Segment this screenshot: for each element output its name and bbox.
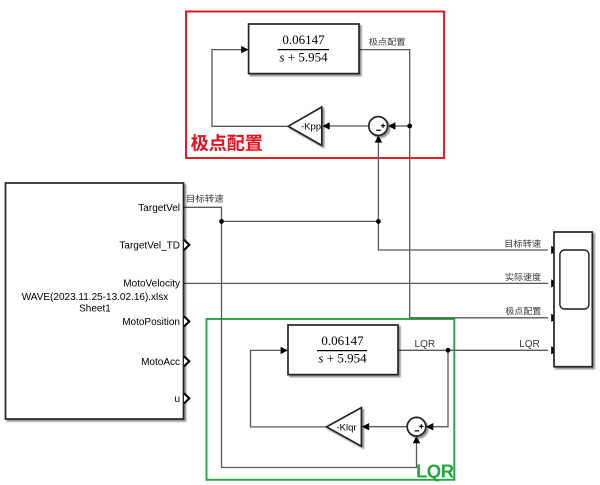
svg-text:TargetVel: TargetVel	[138, 203, 180, 214]
wire: MotoVelocity output to scope input 2	[184, 282, 549, 284]
node: junction B (TargetVel to sum1/scope)	[376, 219, 381, 224]
output port chevron MotoAcc	[184, 356, 189, 366]
signal label 实际速度 (at scope)	[506, 273, 541, 281]
wire: sum2 output to gain2 input	[368, 426, 408, 428]
svg-text:MotoAcc: MotoAcc	[141, 357, 180, 368]
signal label 极点配置 (at TF1 output)	[369, 38, 405, 46]
svg-text:LQR: LQR	[519, 339, 540, 350]
gain block -Klqr	[327, 408, 362, 447]
svg-text:Sheet1: Sheet1	[79, 303, 111, 314]
svg-text:WAVE(2023.11.25-13.02.16).xlsx: WAVE(2023.11.25-13.02.16).xlsx	[22, 292, 169, 303]
gain block -Kpp	[288, 107, 322, 145]
wire: TargetVel output to junction A	[184, 207, 379, 221]
svg-text:LQR: LQR	[416, 461, 454, 482]
svg-text:0.06147: 0.06147	[321, 333, 364, 348]
green annotation box (LQR region)	[207, 319, 455, 480]
node: junction C (pole placement feedback tap)	[407, 124, 412, 129]
svg-text:LQR: LQR	[415, 339, 436, 350]
svg-text:u: u	[174, 394, 180, 405]
sum junction (LQR)	[407, 417, 426, 436]
block: WAVE spreadsheet source	[6, 183, 184, 419]
svg-text:MotoPosition: MotoPosition	[122, 317, 180, 328]
transfer function block TF1 (0.06147/(s+5.954))	[249, 24, 359, 74]
red 极点配置 title	[191, 134, 262, 151]
wire: gain1 output feedback up into TF1 input	[212, 50, 288, 127]
signal label 极点配置 (at scope)	[506, 307, 541, 315]
output port chevron MotoPosition	[184, 316, 189, 326]
svg-text:s + 5.954: s + 5.954	[318, 350, 367, 365]
svg-text:MotoVelocity: MotoVelocity	[123, 279, 180, 290]
output port chevron u	[184, 393, 189, 403]
wire: gain2 output feedback up into TF2 input	[251, 350, 327, 427]
wire: junction A down along bottom into sum2 bottom input	[222, 221, 417, 467]
sum junction (pole placement)	[369, 117, 388, 136]
svg-text:-Klqr: -Klqr	[336, 422, 356, 433]
svg-text:TargetVel_TD: TargetVel_TD	[119, 240, 180, 251]
transfer function block TF2 (0.06147/(s+5.954))	[288, 325, 398, 375]
svg-text:-Kpp: -Kpp	[301, 122, 321, 133]
wire: junction C left into sum1 + input	[394, 125, 410, 127]
wire: junction B down then right to scope input 1	[378, 221, 548, 250]
node: junction D (LQR feedback tap)	[446, 348, 451, 353]
red annotation box (pole placement region)	[186, 12, 444, 159]
signal label 目标转速 (at source block)	[187, 194, 223, 202]
svg-text:s + 5.954: s + 5.954	[279, 49, 328, 64]
svg-text:0.06147: 0.06147	[282, 32, 325, 47]
output port chevron TargetVel_TD	[184, 240, 189, 250]
wire: sum1 output to gain1 input	[328, 125, 369, 127]
wire: junction B up to sum1 bottom input	[377, 142, 379, 222]
node: junction A (TargetVel branch)	[219, 219, 224, 224]
signal label 目标转速 (at scope)	[506, 239, 541, 247]
wire: junction D down then left into sum2 + input	[432, 350, 448, 426]
wire: TF2 output (LQR signal) to scope input 4	[398, 349, 548, 351]
wire: TF1 output down to scope input 3 (pole placement signal)	[359, 50, 548, 318]
scope block	[554, 232, 592, 367]
scope screen icon	[560, 250, 589, 309]
